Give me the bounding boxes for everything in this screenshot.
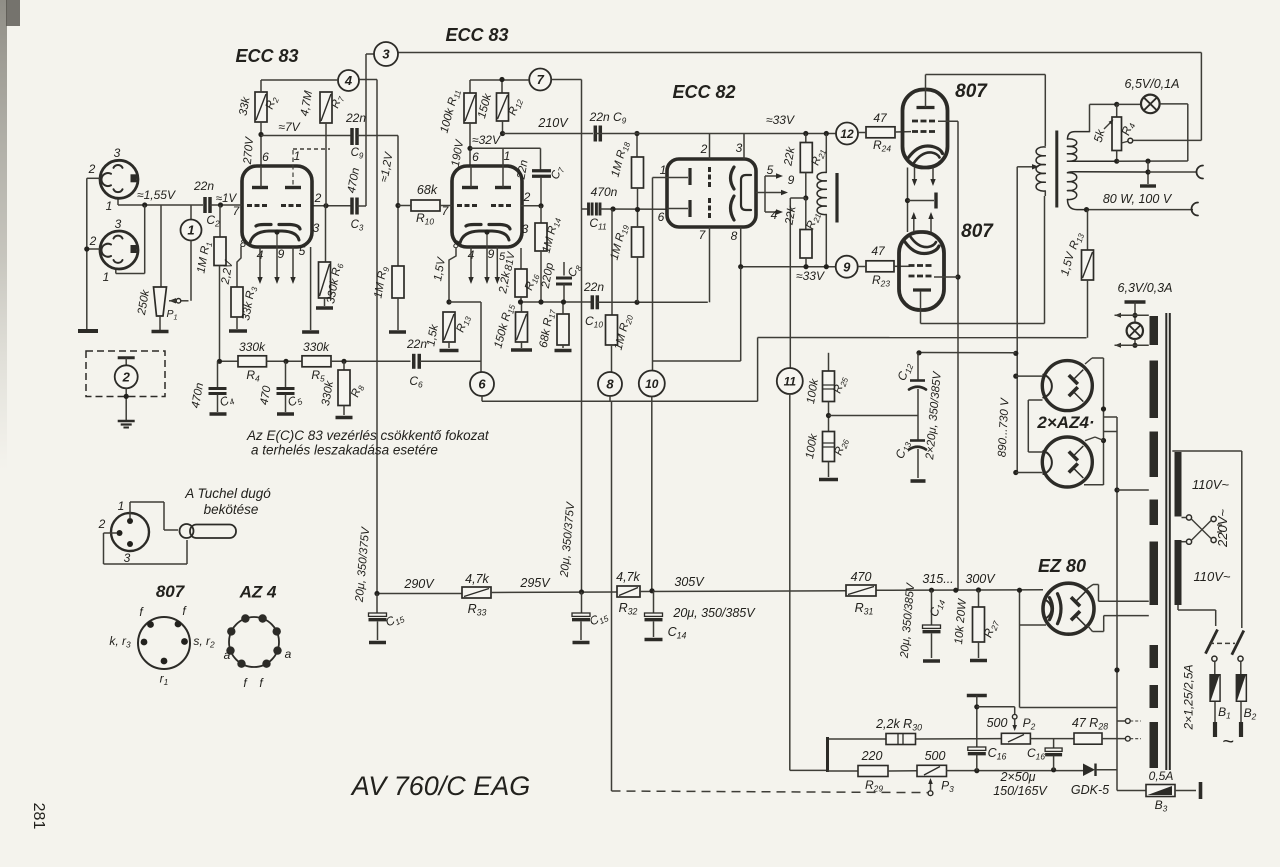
svg-text:0,5A: 0,5A [1149,769,1174,783]
svg-text:6: 6 [472,150,479,164]
svg-text:9: 9 [488,247,495,261]
svg-text:2: 2 [314,191,322,205]
svg-text:≈1V: ≈1V [216,193,238,205]
svg-text:47: 47 [873,111,888,125]
svg-text:≈33V: ≈33V [796,269,825,283]
svg-text:1: 1 [504,149,511,163]
svg-text:≈1,55V: ≈1,55V [137,188,176,202]
svg-text:300V: 300V [965,572,996,586]
svg-text:4: 4 [344,73,353,88]
svg-text:4: 4 [771,208,778,222]
svg-text:470n: 470n [591,185,618,199]
svg-text:7: 7 [537,72,545,87]
svg-text:22n: 22n [406,337,427,351]
svg-text:3: 3 [124,551,131,565]
svg-text:20μ, 350/385V: 20μ, 350/385V [672,606,756,620]
svg-text:290V: 290V [403,577,435,591]
svg-text:220V~: 220V~ [1215,509,1230,548]
svg-text:GDK-5: GDK-5 [1071,783,1109,797]
svg-text:6,3V/0,3A: 6,3V/0,3A [1118,281,1173,295]
svg-text:2×AZ4·: 2×AZ4· [1036,413,1094,432]
svg-text:AZ 4: AZ 4 [239,583,277,602]
svg-text:210V: 210V [537,116,569,130]
svg-text:22n: 22n [583,280,604,294]
svg-text:2×1,25/2,5A: 2×1,25/2,5A [1182,664,1196,730]
svg-text:EZ 80: EZ 80 [1038,556,1086,576]
svg-text:8: 8 [731,229,738,243]
svg-text:12: 12 [840,127,854,141]
svg-text:bekötése: bekötése [204,502,259,517]
svg-text:47: 47 [871,244,886,258]
svg-text:315...: 315... [922,572,953,586]
svg-text:4,7k: 4,7k [465,572,489,586]
svg-text:~: ~ [1222,731,1234,753]
svg-text:9: 9 [278,247,285,261]
svg-text:2: 2 [98,517,106,531]
svg-text:807: 807 [156,582,186,601]
svg-text:11: 11 [784,374,797,388]
svg-text:9: 9 [788,173,795,187]
svg-text:≈33V: ≈33V [766,113,795,127]
svg-text:2: 2 [88,162,96,176]
svg-text:5: 5 [299,244,306,258]
svg-text:2: 2 [89,234,97,248]
svg-text:3: 3 [313,221,320,235]
svg-text:AV 760/C EAG: AV 760/C EAG [350,771,531,801]
svg-text:a: a [224,648,231,662]
svg-text:Az E(C)C 83 vezérlés csökkent: Az E(C)C 83 vezérlés csökkentő fokozat [246,428,490,443]
svg-text:6: 6 [658,210,665,224]
svg-text:≈32V: ≈32V [472,133,501,147]
svg-text:80 W, 100 V: 80 W, 100 V [1103,192,1173,206]
svg-text:A Tuchel dugó: A Tuchel dugó [184,486,271,501]
svg-text:3: 3 [114,146,121,160]
svg-text:22n C9: 22n C9 [589,110,627,126]
svg-text:68k: 68k [417,183,438,197]
svg-text:22n: 22n [345,111,366,125]
svg-text:3: 3 [736,141,743,155]
svg-text:295V: 295V [519,576,551,590]
svg-text:ECC 83: ECC 83 [235,46,298,66]
svg-text:1: 1 [660,163,667,177]
svg-text:6,5V/0,1A: 6,5V/0,1A [1125,77,1180,91]
svg-text:2: 2 [700,142,708,156]
svg-text:330k: 330k [239,340,266,354]
svg-text:4,7k: 4,7k [616,570,640,584]
svg-text:305V: 305V [674,575,705,589]
svg-text:110V~: 110V~ [1192,477,1229,492]
svg-text:110V~: 110V~ [1194,569,1231,584]
svg-text:2×50μ: 2×50μ [999,770,1035,784]
svg-text:270V: 270V [242,136,256,166]
svg-text:10: 10 [645,377,659,391]
svg-text:≈7V: ≈7V [278,120,300,134]
svg-text:8: 8 [606,377,614,392]
svg-text:ECC 82: ECC 82 [672,82,735,102]
svg-text:330k: 330k [303,340,330,354]
svg-text:3: 3 [522,222,529,236]
svg-text:9: 9 [843,259,851,274]
svg-text:6: 6 [262,150,269,164]
svg-text:500: 500 [987,716,1008,730]
svg-text:6: 6 [478,377,486,392]
svg-text:220: 220 [861,749,883,763]
svg-text:22n: 22n [193,179,214,193]
svg-text:a: a [285,647,292,661]
svg-text:1: 1 [294,149,301,163]
svg-text:1: 1 [118,499,125,513]
svg-text:281: 281 [30,803,47,830]
svg-text:1: 1 [103,270,110,284]
svg-text:150/165V: 150/165V [993,784,1048,798]
svg-text:1: 1 [106,199,113,213]
svg-text:807: 807 [955,81,988,102]
svg-text:5: 5 [767,163,774,177]
svg-text:ECC 83: ECC 83 [445,25,508,45]
svg-text:2: 2 [122,369,131,384]
svg-text:a terhelés leszakadása esetér: a terhelés leszakadása esetére [251,443,438,458]
svg-text:2: 2 [523,190,531,204]
svg-text:470: 470 [851,570,872,584]
svg-text:1: 1 [187,223,194,238]
svg-text:3: 3 [115,217,122,231]
svg-text:807: 807 [961,221,994,242]
svg-text:500: 500 [925,749,946,763]
svg-text:3: 3 [382,47,390,62]
